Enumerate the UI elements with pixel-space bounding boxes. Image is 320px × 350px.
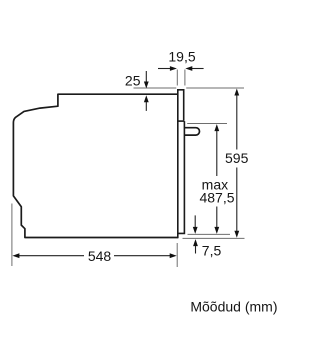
oven carcass outline xyxy=(13,94,177,237)
svg-text:19,5: 19,5 xyxy=(168,49,195,65)
extension line 19.5 left xyxy=(176,70,178,86)
dim 25 up arrow xyxy=(145,102,147,111)
door top step xyxy=(178,120,185,122)
dim max 487,5 line bottom xyxy=(216,207,218,229)
dim 19,5 left arrow xyxy=(158,68,171,70)
extension line door bottom level xyxy=(188,233,231,235)
dim 595 line top xyxy=(236,96,238,150)
extension line top left (fascia top level) xyxy=(134,87,177,89)
extension line 19.5 right xyxy=(184,70,186,86)
svg-text:548: 548 xyxy=(88,248,112,264)
dim max 487,5 line top xyxy=(216,130,218,176)
door handle xyxy=(184,128,199,135)
svg-text:487,5: 487,5 xyxy=(199,190,234,206)
extension line 548 right xyxy=(176,243,178,267)
dim 548 left arrow xyxy=(19,255,85,257)
extension line top right (fascia top level) xyxy=(186,87,244,89)
dim 548 right arrow xyxy=(114,255,171,257)
dim 595 line bottom xyxy=(236,168,238,232)
dim 19,5 right arrow xyxy=(191,68,203,70)
svg-text:Mõõdud (mm): Mõõdud (mm) xyxy=(190,299,277,315)
extension line handle level xyxy=(187,123,227,125)
dim 7,5 down arrow xyxy=(194,215,196,227)
svg-text:595: 595 xyxy=(225,150,249,166)
extension line carcass bottom level xyxy=(183,237,245,239)
svg-text:7,5: 7,5 xyxy=(202,242,222,258)
dim 25 down arrow xyxy=(145,71,147,82)
dim 7,5 up arrow xyxy=(195,246,197,254)
fascia (front frame top section) xyxy=(178,90,184,121)
extension line 548 left xyxy=(11,204,13,267)
svg-text:25: 25 xyxy=(125,73,141,89)
door front face and bottom xyxy=(178,121,185,233)
carcass front vertical line xyxy=(177,89,179,238)
